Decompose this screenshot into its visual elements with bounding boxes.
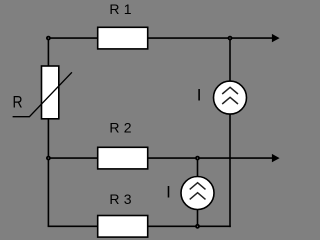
wire bottom: corner to R3 left — [48, 225, 98, 227]
current source I2 circle — [181, 177, 214, 210]
svg-text:I: I — [197, 86, 202, 105]
junction node C — [46, 156, 51, 161]
current source I1 circle — [214, 81, 247, 114]
wire top: node A to R1 left — [48, 37, 97, 39]
svg-text:R 2: R 2 — [109, 119, 131, 135]
wire left vertical: thermistor R bottom to bottom-left corner — [47, 119, 49, 227]
current source I2 chevron upper — [190, 183, 206, 190]
thermistor R body — [42, 66, 59, 119]
wire: current source I2 bottom to node E — [197, 209, 199, 226]
arrow top output — [272, 34, 280, 42]
junction node D — [195, 156, 200, 161]
wire right vertical: current source I1 bottom to bottom wire — [229, 114, 231, 227]
arrow middle output — [272, 154, 280, 162]
resistor R3 — [98, 216, 148, 238]
wire middle: node C to R2 left — [48, 157, 97, 159]
current source I2 chevron lower — [190, 193, 206, 200]
svg-text:R: R — [13, 93, 23, 112]
svg-text:R 1: R 1 — [109, 1, 131, 17]
wire top: R1 right to output arrow — [148, 37, 273, 39]
resistor R1 — [98, 27, 148, 49]
wire middle: R2 right to output arrow — [148, 157, 273, 159]
wire: node D down to current source I2 top — [197, 158, 199, 177]
resistor R2 — [98, 147, 148, 169]
current source I1 chevron lower — [222, 97, 238, 104]
wire bottom: R3 right to bottom-right corner — [148, 225, 231, 227]
svg-text:I: I — [166, 183, 171, 202]
junction node E — [195, 224, 200, 229]
wire left vertical: node A down to thermistor R top — [47, 38, 49, 66]
wire right vertical: node B down to current source I1 top — [229, 38, 231, 81]
junction node B — [228, 36, 233, 41]
current source I1 chevron upper — [222, 87, 238, 94]
svg-text:R 3: R 3 — [109, 191, 131, 207]
thermistor R diagonal stroke — [13, 72, 72, 116]
junction node A — [46, 36, 51, 41]
